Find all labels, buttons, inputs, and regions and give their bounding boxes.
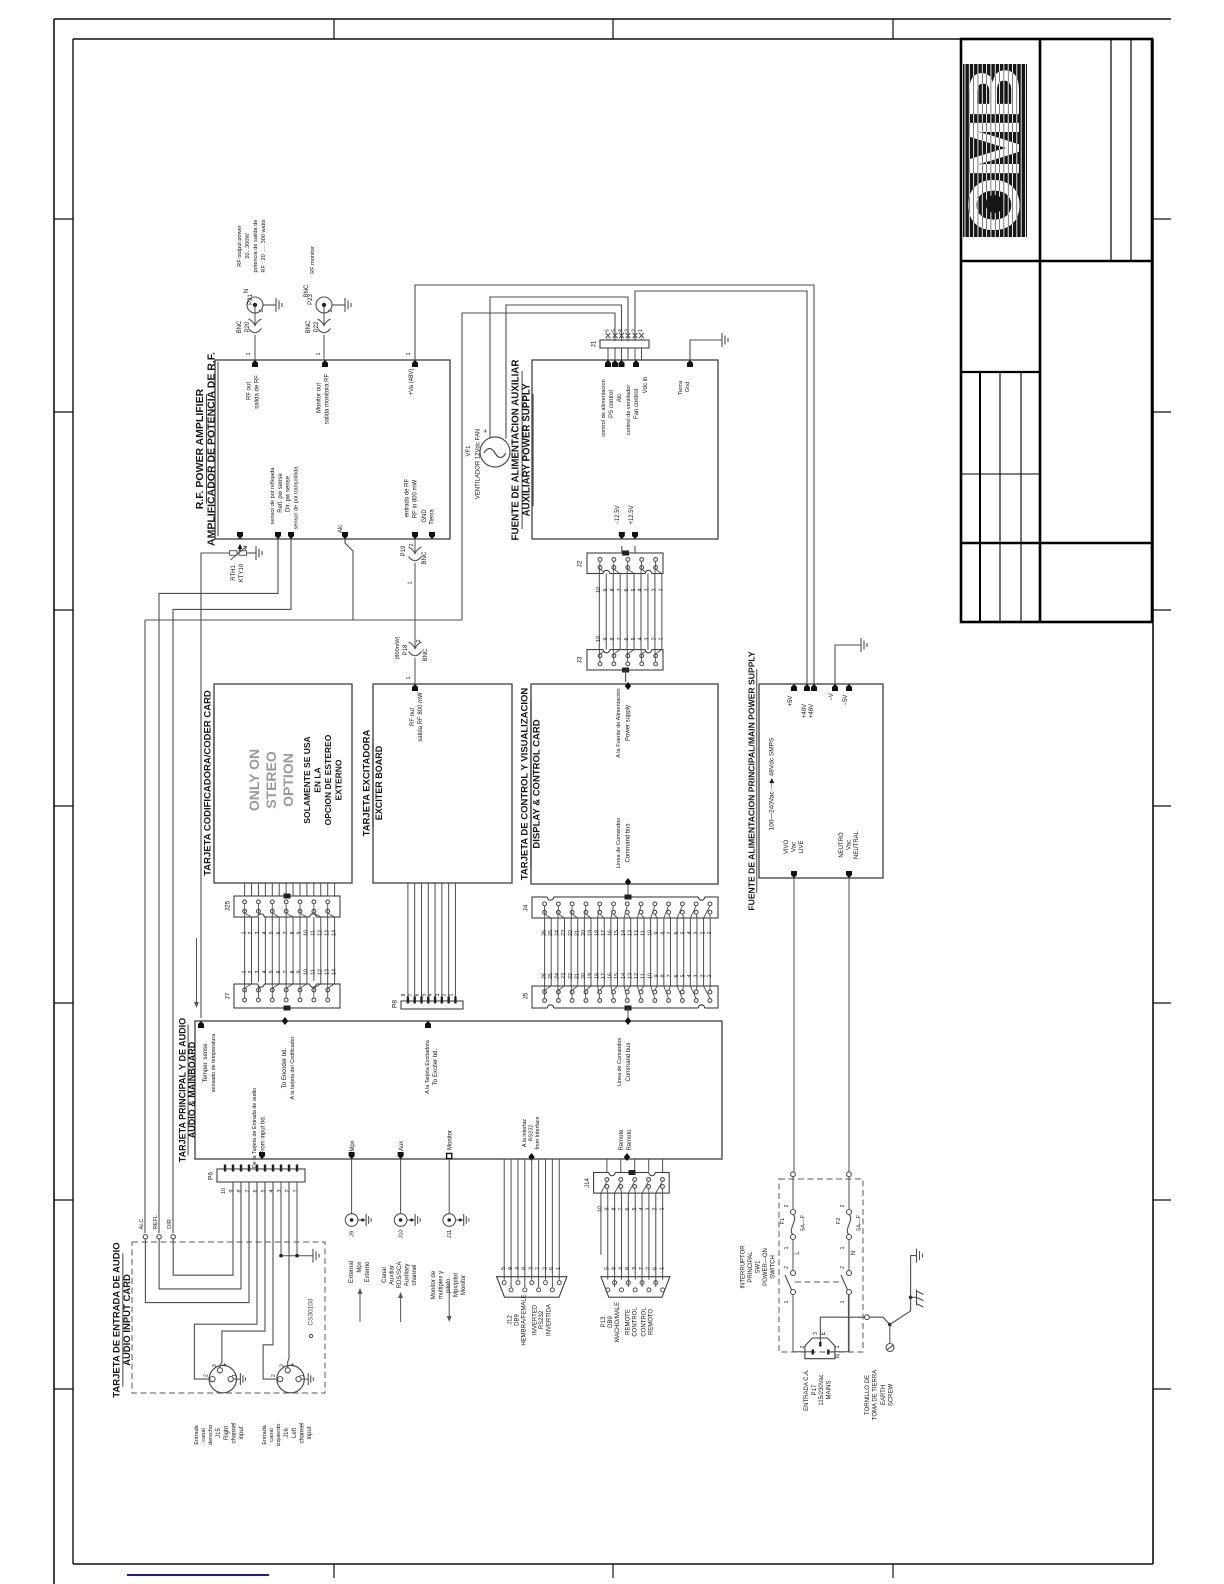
- svg-text:5A—F: 5A—F: [801, 1214, 807, 1230]
- svg-text:2: 2: [652, 638, 658, 641]
- svg-text:A la interfaz: A la interfaz: [522, 1119, 528, 1147]
- svg-text:RF out: RF out: [410, 708, 416, 726]
- svg-text:from Interface: from Interface: [535, 1116, 541, 1149]
- RF PA pin: RF in 800mW: [412, 532, 418, 539]
- svg-text:12: 12: [317, 969, 323, 975]
- svg-text:EXTERNO: EXTERNO: [334, 759, 344, 800]
- svg-text:10: 10: [647, 930, 653, 936]
- svg-text:7: 7: [408, 993, 414, 996]
- svg-text:4: 4: [262, 971, 268, 974]
- svg-text:6: 6: [653, 1267, 659, 1270]
- svg-text:7: 7: [535, 1267, 541, 1270]
- wire P6 pin6 to XLR J15 pin2: [194, 1182, 257, 1379]
- svg-text:A la tarjeta del Codificador: A la tarjeta del Codificador: [290, 1036, 296, 1099]
- svg-text:canal: canal: [201, 1428, 207, 1441]
- earth feedthrough circle: [865, 1315, 870, 1320]
- svg-text:3: 3: [694, 975, 700, 978]
- coax plug P19 BNC: [409, 547, 422, 561]
- svg-text:24: 24: [555, 930, 561, 936]
- svg-text:AUDIO INPUT CARD: AUDIO INPUT CARD: [122, 1274, 133, 1366]
- svg-text:REFL: REFL: [153, 1215, 159, 1229]
- svg-text:J9: J9: [350, 1231, 356, 1237]
- svg-text:MAINS: MAINS: [827, 1380, 833, 1399]
- wire temper sense (RTH1 to mainboard): [201, 553, 228, 1018]
- svg-text:NEUTRAL: NEUTRAL: [854, 830, 860, 859]
- svg-text:J5: J5: [523, 992, 530, 999]
- exciter pin RF out: [412, 684, 418, 691]
- svg-text:1: 1: [241, 971, 247, 974]
- OMB logo: [955, 64, 1035, 237]
- svg-text:11: 11: [311, 969, 317, 975]
- svg-text:13: 13: [324, 969, 330, 975]
- svg-text:+: +: [222, 1362, 229, 1366]
- svg-text:Remoto: Remoto: [627, 1129, 633, 1151]
- blue scan artifact line bottom left: [127, 1574, 269, 1576]
- svg-text:1: 1: [840, 1300, 846, 1303]
- svg-text:TARJETA CODIFICADORA/CODER CAR: TARJETA CODIFICADORA/CODER CARD: [203, 690, 214, 876]
- svg-text:DIR: DIR: [167, 1219, 173, 1229]
- svg-text:5: 5: [421, 993, 427, 996]
- earth ground symbol: [917, 1249, 923, 1263]
- svg-text:input: input: [307, 1426, 313, 1439]
- svg-text:6: 6: [625, 1208, 631, 1211]
- svg-text:6: 6: [624, 638, 630, 641]
- connector J7: [234, 984, 340, 1008]
- fan VF1: [480, 437, 510, 467]
- wires J4 to J5 (26): [544, 918, 546, 986]
- svg-text:7: 7: [617, 638, 623, 641]
- svg-text:5: 5: [501, 1267, 507, 1270]
- svg-text:+Va (48V): +Va (48V): [409, 369, 415, 396]
- ALC node horizontal wire: [145, 619, 462, 621]
- svg-text:RDS/SCA: RDS/SCA: [397, 1262, 403, 1289]
- svg-text:14: 14: [621, 973, 627, 979]
- svg-text:7: 7: [667, 932, 673, 935]
- svg-text:N: N: [851, 1251, 857, 1255]
- svg-text:17: 17: [601, 930, 607, 936]
- svg-text:1: 1: [659, 1267, 665, 1270]
- svg-text:6: 6: [674, 932, 680, 935]
- svg-text:Right: Right: [224, 1426, 230, 1440]
- svg-text:Mpx/pilot: Mpx/pilot: [454, 1273, 460, 1297]
- svg-text:1: 1: [406, 676, 412, 679]
- P6 ground rail: [280, 1182, 282, 1256]
- svg-text:3: 3: [212, 1364, 218, 1367]
- display card pin power supply: [625, 682, 631, 690]
- aux PSU bottom pins -12.5V +12.5V: [619, 532, 625, 539]
- wire P23 to ground: [332, 304, 345, 306]
- wires mainboard to J12 (9): [503, 1159, 505, 1280]
- svg-text:Command bus: Command bus: [626, 1042, 632, 1081]
- svg-text:4: 4: [618, 329, 624, 332]
- svg-text:channel: channel: [232, 1422, 238, 1443]
- mainboard pin Aux: [398, 1152, 404, 1159]
- svg-text:+: +: [290, 1362, 297, 1366]
- svg-text:control de alimentacion: control de alimentacion: [601, 379, 607, 437]
- svg-text:10: 10: [598, 1206, 604, 1212]
- svg-text:Left: Left: [292, 1428, 298, 1438]
- svg-text:E: E: [821, 1331, 827, 1335]
- svg-text:9: 9: [603, 638, 609, 641]
- svg-text:BNC: BNC: [306, 320, 312, 333]
- svg-text:SCREW: SCREW: [889, 1384, 895, 1407]
- svg-text:1: 1: [293, 1190, 299, 1193]
- svg-text:Refl. pw sense: Refl. pw sense: [278, 473, 284, 513]
- svg-text:8: 8: [610, 589, 616, 592]
- svg-text:SW1: SW1: [756, 1260, 762, 1274]
- svg-text:POWER—ON: POWER—ON: [763, 1248, 769, 1286]
- svg-text:2: 2: [784, 1204, 790, 1207]
- svg-text:channel: channel: [412, 1264, 418, 1285]
- svg-text:9: 9: [297, 932, 303, 935]
- svg-text:1: 1: [659, 1208, 665, 1211]
- svg-text:REMOTO: REMOTO: [649, 1309, 655, 1336]
- svg-text:19: 19: [588, 930, 594, 936]
- wires J25 to J7 (14): [244, 917, 246, 984]
- svg-text:PS control: PS control: [609, 390, 615, 418]
- svg-text:salida RF 800 mW: salida RF 800 mW: [418, 692, 424, 742]
- svg-text:4: 4: [687, 932, 693, 935]
- svg-text:To Encoder bd.: To Encoder bd.: [282, 1047, 288, 1088]
- mainboard pin to exciter bd: [425, 1021, 431, 1028]
- svg-text:Tierra: Tierra: [678, 380, 684, 395]
- svg-text:Mpx: Mpx: [350, 1140, 356, 1151]
- svg-text:2: 2: [542, 1267, 548, 1270]
- connector P6: [217, 1169, 305, 1182]
- svg-text:−12.5V: −12.5V: [615, 505, 621, 524]
- connector J5: [532, 986, 718, 1008]
- svg-text:7: 7: [667, 975, 673, 978]
- svg-text:14: 14: [331, 969, 337, 975]
- ground at aux PSU: [722, 333, 728, 347]
- svg-text:J16: J16: [284, 1428, 290, 1438]
- svg-text:P6: P6: [208, 1172, 215, 1180]
- svg-text:6: 6: [415, 993, 421, 996]
- auxiliary power supply block: [532, 360, 718, 539]
- svg-text:PRINCIPAL: PRINCIPAL: [748, 1251, 754, 1283]
- svg-text:+: +: [483, 429, 490, 433]
- svg-text:J15: J15: [216, 1428, 222, 1438]
- svg-text:20...300W: 20...300W: [245, 233, 251, 259]
- svg-text:EXCITER BOARD: EXCITER BOARD: [374, 745, 384, 820]
- svg-text:RS232: RS232: [529, 1125, 535, 1141]
- svg-text:6: 6: [253, 1190, 259, 1193]
- svg-text:P8: P8: [392, 1000, 399, 1008]
- svg-text:5: 5: [605, 1267, 611, 1270]
- main PSU bottom pins: [791, 871, 797, 878]
- svg-text:4: 4: [687, 975, 693, 978]
- RF PA pin: GND: [429, 532, 435, 539]
- svg-text:Linea de Comandos: Linea de Comandos: [617, 1038, 623, 1087]
- svg-text:AMPLIFICADOR DE POTENCIA DE R.: AMPLIFICADOR DE POTENCIA DE R.F.: [206, 352, 218, 546]
- svg-text:P22: P22: [314, 321, 320, 332]
- svg-text:LIVE: LIVE: [799, 840, 805, 853]
- svg-text:3: 3: [632, 1267, 638, 1270]
- test point ALC: [143, 1235, 147, 1239]
- svg-text:ALC: ALC: [139, 1219, 145, 1230]
- svg-text:J2: J2: [577, 560, 584, 567]
- svg-text:8: 8: [611, 1208, 617, 1211]
- RF PA pin: Monitor out: [322, 360, 328, 367]
- audio input card dashed box: [132, 1242, 325, 1393]
- svg-text:P20: P20: [245, 321, 251, 332]
- ground at audio card: [313, 1249, 319, 1263]
- svg-text:−5V: −5V: [843, 695, 849, 706]
- svg-text:6: 6: [276, 971, 282, 974]
- svg-text:1: 1: [707, 975, 713, 978]
- svg-text:+48V: +48V: [809, 704, 815, 718]
- wire to earth screw: [889, 1325, 891, 1344]
- svg-text:+12.5V: +12.5V: [629, 505, 635, 524]
- svg-text:5: 5: [631, 589, 637, 592]
- svg-text:OPCION DE ESTEREO: OPCION DE ESTEREO: [323, 734, 333, 825]
- svg-text:TARJETA PRINCIPAL Y DE AUDIO: TARJETA PRINCIPAL Y DE AUDIO: [178, 1018, 188, 1162]
- wire chassis to earth ground: [911, 1256, 917, 1298]
- svg-text:11: 11: [641, 930, 647, 936]
- svg-text:5: 5: [269, 932, 275, 935]
- svg-text:8: 8: [290, 971, 296, 974]
- connector J25: [234, 896, 340, 917]
- svg-text:EN LA: EN LA: [313, 767, 323, 793]
- RF PA pin: RF out: [252, 360, 258, 367]
- svg-text:8: 8: [610, 638, 616, 641]
- +48V wire rail to RF PA: [415, 285, 814, 684]
- svg-text:4: 4: [515, 1267, 521, 1270]
- svg-text:DB9: DB9: [514, 1314, 520, 1326]
- test point REFL: [157, 1235, 161, 1239]
- svg-text:9: 9: [654, 975, 660, 978]
- wire REFL to P6 pin8: [159, 1182, 241, 1289]
- svg-text:4: 4: [262, 932, 268, 935]
- svg-text:salida monitora RF: salida monitora RF: [325, 373, 331, 424]
- XLR connector J15: [209, 1365, 236, 1392]
- svg-text:Monitor: Monitor: [461, 1275, 467, 1295]
- svg-text:J10: J10: [399, 1229, 405, 1238]
- svg-text:5: 5: [631, 638, 637, 641]
- svg-text:DISPLAY & CONTROL CARD: DISPLAY & CONTROL CARD: [532, 719, 543, 848]
- svg-text:FUENTE DE ALIMENTACION PRINCIP: FUENTE DE ALIMENTACION PRINCIPAL/MAIN PO…: [747, 651, 757, 911]
- mainboard pin Remote: [624, 1153, 630, 1161]
- svg-text:J4: J4: [523, 904, 530, 911]
- svg-text:Remote: Remote: [619, 1129, 625, 1151]
- panel connector J10: [400, 1159, 402, 1214]
- svg-text:16: 16: [608, 930, 614, 936]
- wire main PSU live down: [793, 878, 795, 1172]
- svg-text:3: 3: [645, 589, 651, 592]
- svg-text:6: 6: [605, 329, 611, 332]
- svg-text:5: 5: [632, 1208, 638, 1211]
- svg-text:TARJETA DE ENTRADA DE AUDIO: TARJETA DE ENTRADA DE AUDIO: [112, 1242, 123, 1397]
- svg-text:INVERTED: INVERTED: [533, 1304, 539, 1335]
- thermistor RTH1 KTY10: [228, 552, 248, 554]
- panel connector P21 (N): [247, 297, 263, 313]
- svg-text:1: 1: [232, 1374, 238, 1377]
- svg-text:1: 1: [840, 1246, 846, 1249]
- svg-text:22: 22: [568, 973, 574, 979]
- svg-text:sensor de pot transmitida: sensor de pot transmitida: [294, 466, 300, 530]
- svg-text:2: 2: [271, 1374, 277, 1377]
- svg-text:4: 4: [638, 589, 644, 592]
- svg-text:Entrada: Entrada: [262, 1424, 268, 1444]
- svg-text:13: 13: [324, 930, 330, 936]
- svg-text:+5V: +5V: [788, 696, 794, 707]
- svg-text:2: 2: [409, 543, 415, 546]
- chassis ground symbol: [911, 1290, 924, 1308]
- svg-text:7: 7: [245, 1190, 251, 1193]
- svg-text:23: 23: [561, 930, 567, 936]
- coder card block: [214, 684, 352, 883]
- earth screw symbol: [886, 1344, 894, 1352]
- wire P6 pin2 to XLR J16 pin3: [288, 1182, 289, 1368]
- ground at main PSU: [861, 638, 867, 652]
- svg-text:Canal: Canal: [382, 1267, 388, 1283]
- svg-text:3: 3: [645, 638, 651, 641]
- svg-text:6: 6: [276, 932, 282, 935]
- connector J2: [587, 553, 663, 574]
- test point DIR: [171, 1235, 175, 1239]
- svg-text:25: 25: [548, 973, 554, 979]
- svg-text:11: 11: [311, 930, 317, 936]
- svg-text:A la Tarjeta Excitadora: A la Tarjeta Excitadora: [425, 1040, 431, 1094]
- svg-text:CONTROL: CONTROL: [633, 1307, 639, 1337]
- svg-text:4: 4: [638, 638, 644, 641]
- svg-text:BNC: BNC: [237, 320, 243, 333]
- svg-text:6: 6: [674, 975, 680, 978]
- fan - wire to J1 pin4: [506, 305, 622, 439]
- svg-text:Power supply: Power supply: [626, 705, 632, 741]
- DB9 connector P13: [601, 1277, 670, 1298]
- svg-text:3: 3: [625, 329, 631, 332]
- wire N into P17: [830, 1351, 849, 1353]
- fuse F1: [791, 1210, 796, 1215]
- fan + wire to J1 pin3: [490, 297, 628, 439]
- svg-text:4: 4: [618, 1267, 624, 1270]
- svg-text:RTH1: RTH1: [231, 565, 237, 581]
- svg-text:15: 15: [614, 973, 620, 979]
- panel connector J9: [351, 1159, 353, 1214]
- svg-text:To Exciter bd.: To Exciter bd.: [433, 1048, 439, 1085]
- svg-text:2: 2: [442, 993, 448, 996]
- svg-text:Auxiliary: Auxiliary: [405, 1264, 411, 1287]
- svg-text:Monitor out: Monitor out: [317, 383, 323, 413]
- svg-text:3: 3: [435, 993, 441, 996]
- svg-text:BNC: BNC: [423, 648, 429, 661]
- svg-text:12: 12: [634, 973, 640, 979]
- svg-text:FUENTE DE ALIMENTACION AUXILIA: FUENTE DE ALIMENTACION AUXILIAR: [511, 360, 522, 541]
- wire main PSU neutral down: [848, 878, 850, 1172]
- svg-text:A la Fuente de Alimentacion: A la Fuente de Alimentacion: [616, 688, 622, 757]
- wire RTH1 to ground: [248, 552, 256, 554]
- switch contact L: [791, 1271, 796, 1276]
- svg-text:KTY10: KTY10: [239, 563, 245, 582]
- svg-text:26: 26: [541, 973, 547, 979]
- svg-text:115/230Vac: 115/230Vac: [819, 1374, 825, 1405]
- svg-text:Gnd: Gnd: [685, 382, 691, 393]
- svg-text:sensado de temperatura: sensado de temperatura: [211, 1034, 217, 1092]
- J1 pin5 wire from ALC node: [462, 313, 615, 620]
- svg-text:3: 3: [813, 1332, 819, 1335]
- svg-text:RF monitor: RF monitor: [310, 246, 316, 274]
- wires J2 to J3 (10): [598, 574, 600, 650]
- svg-text:REMOTE: REMOTE: [626, 1309, 632, 1335]
- display card pin command bus: [625, 878, 631, 886]
- wires J14 to P13 (10): [600, 1193, 602, 1255]
- RF PA pin: Alc: [342, 532, 348, 539]
- svg-text:2: 2: [646, 1267, 652, 1270]
- audio & mainboard block: [195, 1021, 722, 1159]
- svg-text:Vac: Vac: [792, 842, 798, 852]
- RF PA pin: temp sensor: [237, 532, 243, 539]
- mainboard pin Monitor: [447, 1153, 452, 1158]
- svg-text:9: 9: [297, 971, 303, 974]
- mainboard pin command bus: [625, 1017, 631, 1025]
- svg-text:3: 3: [646, 1208, 652, 1211]
- svg-text:CONTROL: CONTROL: [642, 1307, 648, 1337]
- wire L into P17: [793, 1351, 812, 1353]
- svg-text:P19: P19: [401, 545, 407, 556]
- arrow external mpx: [359, 1291, 361, 1322]
- power entry dashed box: [779, 1179, 863, 1352]
- svg-text:Tierra: Tierra: [430, 509, 436, 525]
- svg-text:Dir. pw sense: Dir. pw sense: [286, 475, 292, 512]
- ground at RTH1: [256, 546, 262, 560]
- svg-text:3: 3: [255, 971, 261, 974]
- wire J5 to mainboard: [627, 1008, 629, 1019]
- svg-text:sensor de pot reflejada: sensor de pot reflejada: [270, 467, 276, 525]
- direction arrow temper sense: [196, 938, 198, 1005]
- svg-text:salida de RF: salida de RF: [255, 375, 261, 409]
- svg-text:7: 7: [639, 1267, 645, 1270]
- svg-text:VENTILADOR 12Vdc FAN: VENTILADOR 12Vdc FAN: [476, 429, 482, 499]
- wires aux PSU to J2: [621, 546, 623, 553]
- svg-text:R.F. POWER AMPLIFIER: R.F. POWER AMPLIFIER: [194, 388, 206, 509]
- svg-text:6: 6: [624, 589, 630, 592]
- arrow RTH1 to RF PA pin: [239, 547, 241, 551]
- connector J1: [600, 340, 649, 348]
- svg-text:Linea de Comandos: Linea de Comandos: [616, 818, 622, 868]
- svg-text:VIVO: VIVO: [784, 840, 790, 855]
- wire display card to J4: [627, 884, 629, 896]
- svg-text:Aux: Aux: [399, 1141, 405, 1151]
- +48V wire rail to J1 pin2: [635, 291, 807, 684]
- svg-text:6: 6: [549, 1267, 555, 1270]
- svg-text:control de ventilador: control de ventilador: [626, 385, 632, 436]
- svg-text:2: 2: [700, 932, 706, 935]
- svg-text:P23: P23: [308, 294, 314, 305]
- title block: [961, 39, 1152, 622]
- svg-text:derecho: derecho: [208, 1425, 214, 1445]
- svg-text:F1: F1: [780, 1218, 786, 1225]
- svg-text:(800mW): (800mW): [395, 636, 401, 659]
- RF PA pin: +Va 48V: [412, 360, 418, 367]
- svg-text:1: 1: [316, 352, 322, 355]
- coax plug P20 BNC: [249, 319, 262, 333]
- RF PA pin: Dir pw sense: [288, 532, 294, 539]
- svg-text:TORNILLO DE: TORNILLO DE: [865, 1375, 871, 1415]
- svg-text:10: 10: [221, 1188, 227, 1194]
- wire P21 to ground: [263, 304, 276, 306]
- svg-text:1: 1: [241, 932, 247, 935]
- svg-text:2: 2: [248, 971, 254, 974]
- ground at P23: [345, 298, 351, 312]
- svg-text:20: 20: [581, 973, 587, 979]
- wires exciter to P8 (8): [407, 883, 409, 1001]
- svg-text:2: 2: [653, 1208, 659, 1211]
- svg-text:Vac: Vac: [847, 840, 853, 850]
- svg-text:13: 13: [627, 930, 633, 936]
- svg-text:3: 3: [280, 1364, 286, 1367]
- svg-text:25: 25: [548, 930, 554, 936]
